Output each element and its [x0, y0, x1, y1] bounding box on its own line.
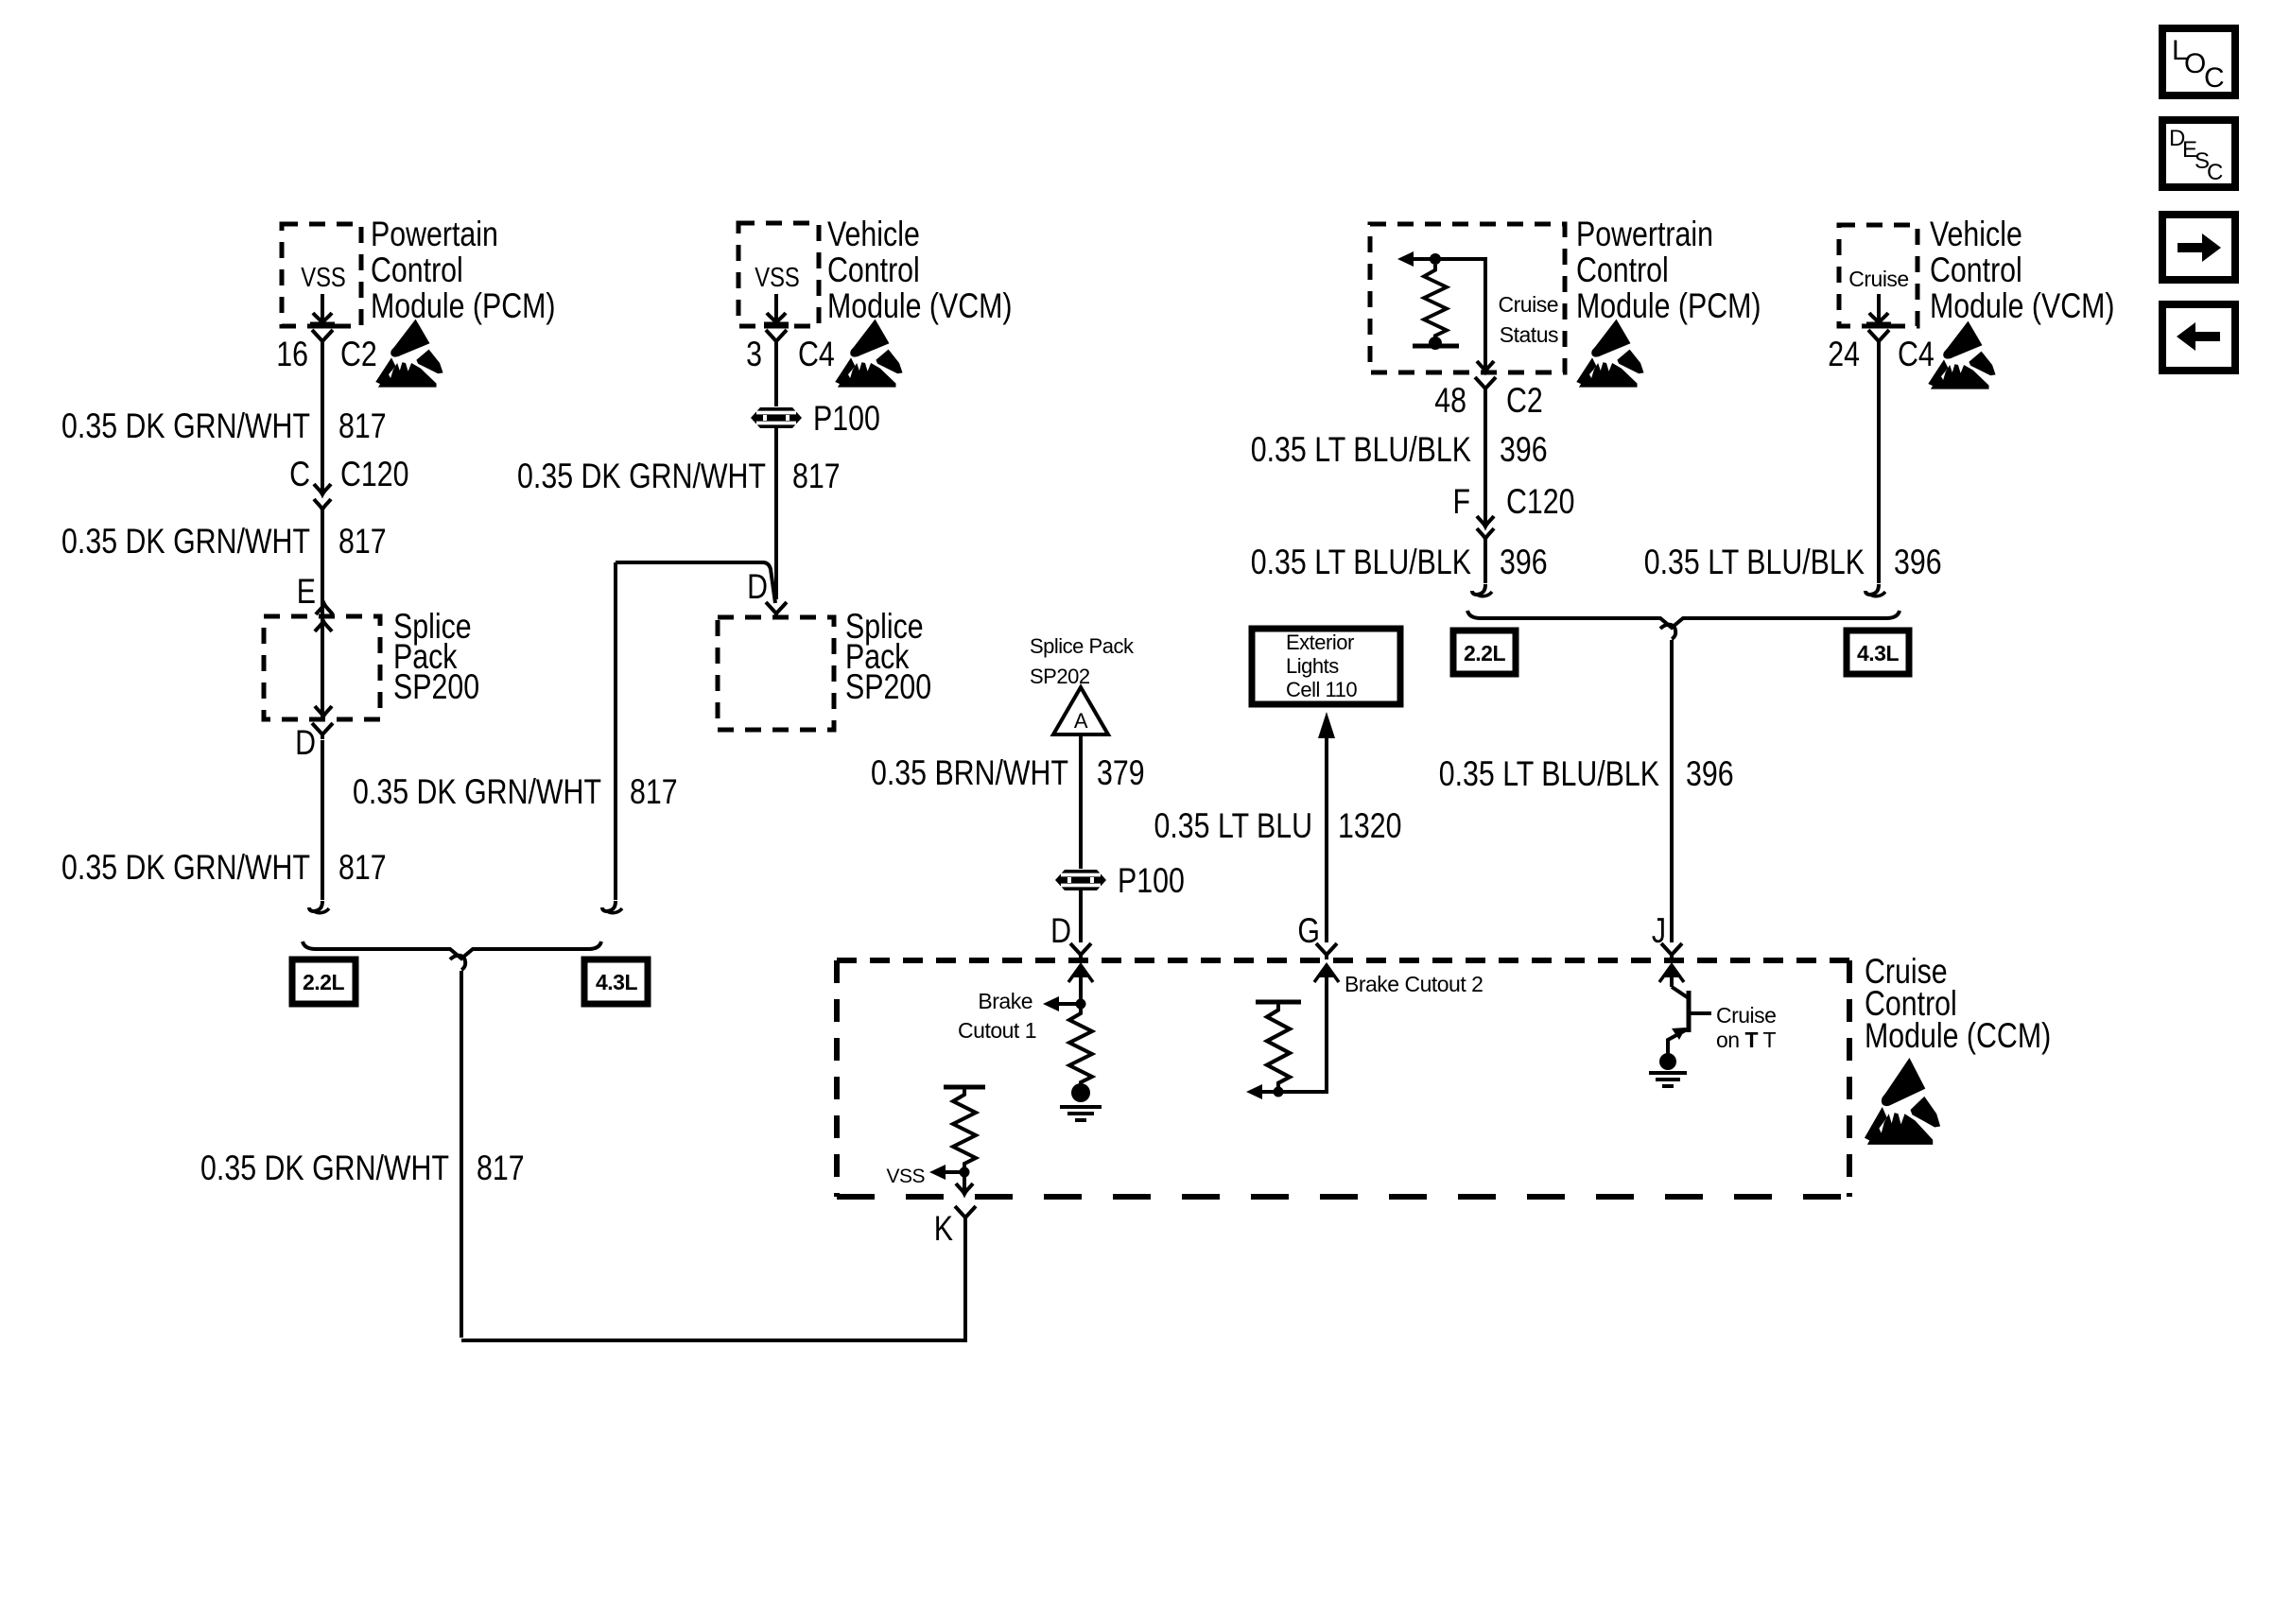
- svg-text:817: 817: [792, 457, 841, 496]
- svg-text:Exterior: Exterior: [1286, 631, 1354, 654]
- branch wire to D junction: [616, 562, 775, 603]
- svg-text:Status: Status: [1500, 322, 1558, 347]
- wire 48 to F: [1484, 393, 1487, 524]
- svg-text:VSS: VSS: [301, 262, 346, 293]
- svg-text:817: 817: [338, 522, 387, 561]
- svg-text:F: F: [1452, 482, 1470, 522]
- splice pack SP202 triangle A: [1053, 687, 1108, 734]
- SP200 box1 label: [393, 607, 479, 707]
- svg-text:C: C: [2207, 160, 2223, 185]
- VCM ESD symbol: [835, 320, 902, 388]
- svg-text:A: A: [1074, 709, 1088, 733]
- splice pack SP202 label: [1030, 634, 1135, 688]
- svg-text:396: 396: [1500, 543, 1548, 582]
- svg-text:16: 16: [276, 335, 308, 374]
- svg-text:E: E: [297, 572, 316, 612]
- brake cutout 1 label: [958, 989, 1036, 1043]
- P100 pass-through connector: [751, 407, 802, 428]
- VCM module box (left): [738, 223, 819, 326]
- svg-text:Vehicle: Vehicle: [827, 215, 920, 254]
- svg-text:1320: 1320: [1338, 806, 1401, 846]
- CCM VSS resistor: [944, 1087, 985, 1178]
- CCM pin D internal up arrow: [1068, 965, 1093, 1010]
- svg-text:K: K: [934, 1209, 954, 1249]
- label 0.35 LT BLU/BLK 396 (2): [1251, 543, 1548, 582]
- CCM title: [1865, 952, 2051, 1056]
- svg-text:P100: P100: [813, 399, 880, 439]
- right junction brace: [1467, 611, 1900, 628]
- wire end hook left: [309, 901, 329, 913]
- svg-text:48: 48: [1434, 381, 1466, 421]
- svg-text:Cruise: Cruise: [1848, 267, 1908, 291]
- SP200 box2 label: [845, 607, 931, 707]
- label 0.35 LT BLU/BLK 396 (J wire): [1439, 754, 1734, 794]
- label 0.35 DK GRN/WHT 817 (bottom): [200, 1149, 525, 1188]
- svg-text:Control: Control: [371, 251, 463, 290]
- PCM title text: [371, 215, 556, 326]
- svg-text:Module (PCM): Module (PCM): [371, 286, 556, 326]
- svg-text:C120: C120: [1506, 482, 1575, 522]
- wire right junction to J: [1670, 640, 1674, 942]
- svg-text:Control: Control: [1576, 251, 1669, 290]
- E chevron: [316, 604, 333, 614]
- center wire down from left junction: [460, 971, 463, 1338]
- 4.3L box (left): [584, 959, 648, 1004]
- svg-text:2.2L: 2.2L: [1464, 641, 1505, 665]
- svg-text:Powertain: Powertain: [371, 215, 498, 254]
- left junction center squiggle: [450, 956, 465, 970]
- svg-text:4.3L: 4.3L: [1857, 641, 1899, 665]
- cruise on label: [1716, 1003, 1777, 1052]
- transistor ground: [1649, 1053, 1687, 1086]
- splice pack SP200 box 1: [264, 616, 380, 719]
- right VCM title: [1930, 215, 2115, 326]
- svg-text:Cruise: Cruise: [1716, 1003, 1776, 1028]
- VCM title text: [827, 215, 1013, 326]
- P100 pass-through connector (middle): [1055, 870, 1106, 890]
- PCM VSS exit arrow: [310, 294, 335, 325]
- svg-text:0.35 DK GRN/WHT: 0.35 DK GRN/WHT: [61, 406, 310, 446]
- svg-text:817: 817: [630, 772, 678, 812]
- svg-text:0.35 LT BLU/BLK: 0.35 LT BLU/BLK: [1251, 430, 1472, 470]
- label 0.35 LT BLU 1320: [1154, 806, 1401, 846]
- svg-text:O: O: [2184, 48, 2206, 79]
- svg-text:P100: P100: [1118, 861, 1185, 901]
- bottom route wire to K: [461, 1220, 965, 1340]
- svg-text:D: D: [747, 567, 768, 607]
- wire SP202 to P100: [1079, 734, 1083, 869]
- svg-text:Control: Control: [1930, 251, 2022, 290]
- CCM J connector Y: [1661, 943, 1682, 959]
- arrow up into exterior lights box: [1318, 712, 1335, 738]
- cruise status circuit inside right PCM: [1397, 251, 1494, 371]
- DESC nav box: [2162, 120, 2235, 187]
- svg-text:on T T: on T T: [1716, 1028, 1777, 1052]
- PCM ESD symbol: [375, 320, 442, 388]
- pin D connector Y below SP200 box1: [312, 723, 333, 739]
- CCM pin G internal up arrow: [1259, 965, 1339, 1092]
- svg-text:Brake Cutout 2: Brake Cutout 2: [1345, 972, 1483, 996]
- C120 connector symbol: [314, 484, 331, 510]
- svg-text:C4: C4: [1898, 335, 1935, 374]
- cruise status label: [1499, 292, 1558, 347]
- left-arrow nav box: [2162, 304, 2235, 371]
- label 0.35 DK GRN/WHT 817 (branch): [353, 772, 678, 812]
- svg-text:VSS: VSS: [886, 1166, 925, 1187]
- brake cutout 1 ground: [1060, 1083, 1102, 1120]
- label 0.35 DK GRN/WHT 817 (2): [61, 522, 387, 561]
- svg-text:0.35 DK GRN/WHT: 0.35 DK GRN/WHT: [517, 457, 766, 496]
- svg-text:0.35 DK GRN/WHT: 0.35 DK GRN/WHT: [61, 522, 310, 561]
- CCM ESD symbol: [1865, 1058, 1940, 1145]
- wire PCM 16 to C120: [321, 346, 324, 494]
- svg-text:Module (VCM): Module (VCM): [827, 286, 1013, 326]
- VCM module box (right): [1839, 225, 1917, 326]
- CCM VSS arrow: [886, 1165, 964, 1187]
- svg-text:C4: C4: [798, 335, 835, 374]
- brake cutout 1 resistor: [1069, 1008, 1092, 1087]
- brake cutout 1 arrow: [1043, 996, 1086, 1011]
- svg-text:24: 24: [1828, 335, 1860, 374]
- label 0.35 LT BLU/BLK 396 (1): [1251, 430, 1548, 470]
- wire P100 to D: [774, 428, 778, 599]
- CCM D connector Y: [1070, 943, 1091, 959]
- cruise on transistor: [1668, 987, 1711, 1059]
- CCM module dashed box: [837, 960, 1849, 1197]
- 2.2L box (right): [1453, 631, 1516, 674]
- svg-text:396: 396: [1500, 430, 1548, 470]
- svg-text:Module (PCM): Module (PCM): [1576, 286, 1761, 326]
- wire G to exterior lights: [1325, 738, 1328, 942]
- CCM G connector Y: [1316, 943, 1337, 959]
- svg-text:0.35 DK GRN/WHT: 0.35 DK GRN/WHT: [61, 848, 310, 888]
- right VCM wire end hook: [1865, 584, 1885, 596]
- svg-text:Cell 110: Cell 110: [1286, 678, 1357, 701]
- svg-text:0.35 BRN/WHT: 0.35 BRN/WHT: [871, 753, 1068, 793]
- svg-text:Lights: Lights: [1286, 654, 1339, 678]
- D connector Y above SP200 box2: [766, 602, 787, 618]
- label 0.35 LT BLU/BLK 396 (VCM right): [1644, 543, 1942, 582]
- svg-text:817: 817: [338, 848, 387, 888]
- right-arrow nav box: [2162, 215, 2235, 280]
- svg-text:3: 3: [746, 335, 762, 374]
- VCM 3/C4 connector Y: [766, 330, 787, 346]
- PCM module box (right): [1370, 224, 1565, 372]
- svg-text:D: D: [1050, 911, 1071, 951]
- svg-text:Module (VCM): Module (VCM): [1930, 286, 2115, 326]
- svg-text:VSS: VSS: [755, 262, 800, 293]
- svg-text:Cruise: Cruise: [1499, 292, 1558, 317]
- branch wire end hook: [602, 901, 622, 913]
- CCM pin J internal up arrow: [1659, 965, 1684, 987]
- wire C120 to E: [321, 510, 324, 616]
- svg-text:0.35 LT BLU/BLK: 0.35 LT BLU/BLK: [1251, 543, 1472, 582]
- wire through SP200 box 1: [315, 616, 332, 719]
- svg-text:Cutout 1: Cutout 1: [958, 1018, 1036, 1043]
- right PCM wire end hook: [1472, 584, 1492, 596]
- right VCM exit arrow: [1866, 294, 1891, 325]
- svg-text:0.35 LT BLU: 0.35 LT BLU: [1154, 806, 1312, 846]
- right junction center squiggle: [1660, 625, 1675, 639]
- splice pack SP200 box 2: [718, 617, 834, 730]
- label 0.35 DK GRN/WHT 817 (3): [61, 848, 387, 888]
- label 0.35 DK GRN/WHT 817 (VCM): [517, 457, 841, 496]
- svg-text:Vehicle: Vehicle: [1930, 215, 2022, 254]
- 2.2L box (left): [292, 959, 356, 1004]
- svg-text:C2: C2: [340, 335, 377, 374]
- PCM 16/C2 connector Y: [312, 330, 333, 346]
- CCM K exit arrow: [956, 1172, 973, 1194]
- svg-text:Splice Pack: Splice Pack: [1030, 634, 1135, 658]
- wire P100 to CCM pin D: [1079, 890, 1083, 942]
- wire 24 to right junction: [1877, 346, 1881, 583]
- svg-text:379: 379: [1097, 753, 1145, 793]
- left junction brace: [303, 942, 601, 959]
- wire VCM to P100: [774, 346, 778, 406]
- Exterior Lights cell box: [1252, 629, 1400, 704]
- right PCM ESD symbol: [1576, 320, 1643, 388]
- right VCM ESD symbol: [1928, 321, 1995, 389]
- svg-text:SP200: SP200: [845, 667, 931, 707]
- svg-text:SP200: SP200: [393, 667, 479, 707]
- svg-text:C: C: [2204, 62, 2224, 94]
- wire D to junction: [321, 740, 324, 900]
- svg-text:C: C: [289, 455, 310, 494]
- svg-text:Module (CCM): Module (CCM): [1865, 1016, 2051, 1056]
- VCM VSS exit arrow: [764, 294, 789, 325]
- PCM module box (left): [282, 224, 361, 326]
- svg-text:396: 396: [1894, 543, 1942, 582]
- svg-text:817: 817: [477, 1149, 525, 1188]
- svg-text:2.2L: 2.2L: [303, 970, 344, 994]
- CCM K connector Y: [955, 1206, 976, 1222]
- svg-text:Control: Control: [827, 251, 920, 290]
- svg-text:396: 396: [1686, 754, 1734, 794]
- wire F to right junction: [1484, 539, 1487, 583]
- svg-text:4.3L: 4.3L: [596, 970, 637, 994]
- 4.3L box (right): [1847, 631, 1909, 674]
- svg-text:Powertrain: Powertrain: [1576, 215, 1713, 254]
- svg-text:C120: C120: [340, 455, 409, 494]
- right PCM 48/C2 connector Y: [1475, 377, 1496, 393]
- svg-text:0.35 DK GRN/WHT: 0.35 DK GRN/WHT: [353, 772, 601, 812]
- svg-text:0.35 LT BLU/BLK: 0.35 LT BLU/BLK: [1439, 754, 1660, 794]
- svg-text:Brake: Brake: [978, 989, 1032, 1013]
- right VCM 24/C4 connector Y: [1868, 330, 1889, 346]
- branch vertical wire: [614, 562, 617, 900]
- brake cutout 2 resistor: [1246, 1002, 1301, 1099]
- svg-text:0.35 LT BLU/BLK: 0.35 LT BLU/BLK: [1644, 543, 1865, 582]
- svg-text:0.35 DK GRN/WHT: 0.35 DK GRN/WHT: [200, 1149, 449, 1188]
- svg-text:817: 817: [338, 406, 387, 446]
- label 0.35 BRN/WHT 379: [871, 753, 1145, 793]
- svg-text:D: D: [295, 723, 316, 763]
- label 0.35 DK GRN/WHT 817 (1): [61, 406, 387, 446]
- right PCM title: [1576, 215, 1761, 326]
- LOC nav box: [2162, 28, 2235, 95]
- F C120 connector symbol: [1477, 516, 1494, 539]
- svg-text:C2: C2: [1506, 381, 1543, 421]
